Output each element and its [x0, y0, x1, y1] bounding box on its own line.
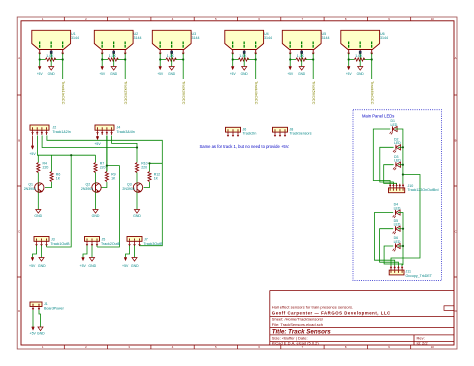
svg-text:+5V: +5V — [122, 264, 129, 268]
wires J1 — [33, 310, 41, 327]
svg-text:LED: LED — [394, 141, 401, 145]
transistor Q3 2N3904 — [133, 183, 142, 193]
hall sensor U4 — [225, 30, 264, 79]
wire D5 right — [398, 228, 403, 230]
svg-text:KiCad E.D.A. elcad (5.0.2): KiCad E.D.A. elcad (5.0.2) — [272, 341, 320, 346]
junction stage3 feed — [136, 146, 138, 148]
wire J2 pin4 to vertical x162.3 — [47, 136, 162, 246]
+5V J7 — [124, 258, 127, 262]
wire J4 pin3 to stage2 base resistor — [106, 136, 108, 172]
+5V J1 — [32, 327, 35, 331]
svg-text:10: 10 — [431, 17, 435, 21]
junction on rail — [70, 154, 72, 156]
svg-text:Track4InDCC: Track4InDCC — [254, 81, 259, 105]
dashed notes box — [353, 110, 442, 281]
svg-text:D: D — [18, 309, 20, 313]
svg-text:+5V: +5V — [94, 142, 101, 146]
svg-text:J7: J7 — [144, 237, 148, 241]
hall sensor U3 — [152, 30, 191, 79]
connector J4 — [95, 125, 114, 135]
wire stage1 base resistor feed — [51, 155, 53, 171]
wires J3 power — [33, 246, 47, 258]
wire D3 left — [384, 165, 397, 185]
svg-text:10: 10 — [431, 345, 435, 349]
svg-text:B: B — [18, 139, 20, 143]
svg-text:B: B — [455, 139, 457, 143]
wires stage3 — [137, 173, 150, 210]
svg-text:TrackSensors: TrackSensors — [290, 132, 312, 136]
svg-text:LED: LED — [394, 240, 401, 244]
svg-text:+5V: +5V — [29, 152, 36, 156]
resistor R12 1K — [148, 172, 151, 182]
junction stage2 tap — [106, 165, 108, 167]
svg-text:J3: J3 — [51, 237, 55, 241]
+5V J5 — [82, 258, 85, 262]
svg-text:GND: GND — [88, 264, 96, 268]
svg-text:J5: J5 — [102, 237, 106, 241]
svg-text:GND: GND — [37, 332, 45, 336]
wires stage2 — [96, 173, 107, 210]
svg-text:Same as for track 1, but no ne: Same as for track 1, but no need to prov… — [200, 144, 290, 149]
wire D2 right — [398, 146, 403, 148]
svg-text:Geoff Carpenter — FARGOS Devel: Geoff Carpenter — FARGOS Development, LL… — [272, 310, 391, 315]
svg-text:Hall effect sensors for train: Hall effect sensors for train presence s… — [272, 305, 353, 310]
hall sensor U5 — [282, 30, 321, 79]
wire D1 right — [395, 129, 403, 185]
svg-text:A: A — [18, 56, 20, 60]
svg-text:3144: 3144 — [192, 36, 200, 40]
svg-text:3144: 3144 — [264, 36, 272, 40]
svg-text:+5V: +5V — [30, 332, 37, 336]
wire branch to lower group — [391, 175, 420, 267]
svg-text:220: 220 — [43, 166, 49, 170]
wire D2 left — [380, 147, 394, 184]
hall sensor U6 — [341, 30, 380, 79]
svg-text:Track2OutB: Track2OutB — [101, 242, 121, 246]
resistor R7 220 — [94, 163, 97, 173]
svg-text:+5V: +5V — [80, 264, 87, 268]
wire stage1 collector — [37, 155, 39, 162]
svg-text:Track1InDCC: Track1InDCC — [61, 81, 66, 105]
svg-text:2N3904: 2N3904 — [81, 187, 93, 191]
svg-text:1K: 1K — [111, 176, 116, 180]
svg-text:Track3&4In: Track3&4In — [117, 130, 135, 134]
+5V J3 — [31, 258, 34, 262]
+5V power J4 pin1 — [97, 136, 99, 137]
wire stage3 tap to vertical — [150, 163, 163, 171]
LED D6 — [393, 243, 401, 251]
connector J10 — [389, 184, 405, 193]
svg-text:GND: GND — [38, 264, 46, 268]
svg-text:Occupy_TrkDET: Occupy_TrkDET — [406, 274, 433, 278]
connector J11 — [389, 266, 404, 275]
svg-text:1K: 1K — [154, 176, 159, 180]
right border sheet tab — [444, 306, 454, 311]
svg-text:GND: GND — [133, 214, 141, 218]
wire stage2 tap to J5 — [97, 166, 119, 247]
wires J7 power — [126, 246, 140, 258]
wires J5 power — [83, 246, 97, 258]
wire D1 left — [373, 129, 390, 185]
svg-text:J1: J1 — [44, 302, 48, 306]
svg-text:LED: LED — [391, 123, 398, 127]
ground Q2 — [93, 210, 98, 214]
resistor R4 220 — [37, 163, 40, 173]
connector J7 — [127, 237, 142, 246]
connector J6 — [226, 127, 241, 136]
svg-text:C: C — [455, 230, 457, 234]
hall sensor U1 — [32, 30, 71, 79]
ground J1 — [38, 327, 43, 331]
wire D4 left — [375, 213, 395, 267]
svg-text:2N3904: 2N3904 — [24, 187, 36, 191]
connector J1 — [30, 302, 42, 310]
svg-text:Track2InDCC: Track2InDCC — [124, 81, 129, 105]
resistor R10 220 — [135, 163, 138, 173]
svg-text:Id: 2/2: Id: 2/2 — [417, 341, 429, 346]
transistor Q2 2N3904 — [92, 183, 101, 193]
svg-text:1K: 1K — [56, 176, 61, 180]
ground Q3 — [134, 210, 139, 214]
svg-text:C: C — [18, 230, 20, 234]
svg-text:3144: 3144 — [380, 36, 388, 40]
svg-text:3144: 3144 — [71, 36, 79, 40]
wire stage1 output drop — [47, 155, 72, 247]
ground J3 — [39, 258, 44, 262]
svg-text:LED: LED — [394, 159, 401, 163]
wire J2 pin3 to stage3 — [42, 136, 137, 148]
svg-text:220: 220 — [141, 166, 147, 170]
wires stage1 — [38, 173, 51, 210]
wire stage2 collector — [95, 155, 97, 162]
ground J5 — [89, 258, 94, 262]
wire D5 left — [380, 229, 399, 267]
connector J2 — [30, 125, 49, 135]
svg-text:J2: J2 — [53, 125, 57, 129]
svg-text:File: TrackSensors.elcad.sch: File: TrackSensors.elcad.sch — [272, 322, 323, 327]
+5V power J2 pin1 — [32, 136, 34, 147]
svg-text:Track1&2In: Track1&2In — [53, 130, 71, 134]
wire D4 right — [398, 213, 403, 267]
svg-text:A: A — [455, 56, 457, 60]
svg-text:3144: 3144 — [134, 36, 142, 40]
svg-text:GND: GND — [34, 214, 42, 218]
ground Q1 — [36, 210, 41, 214]
svg-text:GND: GND — [131, 264, 139, 268]
svg-text:D: D — [455, 309, 457, 313]
svg-text:BoardPower: BoardPower — [44, 306, 65, 310]
svg-text:LED: LED — [394, 223, 401, 227]
connector J5 — [85, 237, 100, 246]
junction stage3 tap — [148, 162, 150, 164]
svg-text:Title: Track Sensors: Title: Track Sensors — [272, 328, 331, 335]
svg-text:Track3OutB: Track3OutB — [144, 242, 164, 246]
wire D6 left — [384, 246, 402, 266]
svg-text:Sheet: /Home/TrackSensors/: Sheet: /Home/TrackSensors/ — [272, 317, 324, 322]
resistor R6 1K — [50, 172, 53, 182]
ground J7 — [132, 258, 137, 262]
svg-text:Q3: Q3 — [127, 183, 132, 187]
svg-text:LED: LED — [394, 206, 401, 210]
connector J8 — [273, 127, 288, 136]
hall sensor U2 — [94, 30, 133, 79]
transistor Q1 2N3904 — [35, 183, 44, 193]
connector J3 — [34, 237, 49, 246]
svg-text:GND: GND — [92, 214, 100, 218]
wires from J2/J4 to stages and outputs — [37, 136, 162, 248]
wire D6 right — [398, 245, 403, 247]
svg-text:Track3InDCC: Track3InDCC — [182, 81, 187, 105]
svg-text:Track5InDCC: Track5InDCC — [312, 81, 317, 105]
wire J2 pin2 rail y156.7 — [37, 136, 95, 156]
svg-text:2N3904: 2N3904 — [122, 187, 134, 191]
LED D1 — [390, 126, 398, 134]
svg-text:J4: J4 — [117, 125, 121, 129]
svg-text:Track123OnOutBrd: Track123OnOutBrd — [408, 188, 439, 192]
svg-text:Track1OutB: Track1OutB — [51, 242, 71, 246]
svg-text:Main Panel LEDs: Main Panel LEDs — [362, 114, 394, 119]
wire D3 right — [398, 164, 403, 166]
svg-text:Track2In: Track2In — [243, 132, 257, 136]
LED D4 — [393, 210, 401, 218]
svg-text:Q2: Q2 — [86, 183, 91, 187]
svg-text:3144: 3144 — [322, 36, 330, 40]
svg-text:Track6InDCC: Track6InDCC — [370, 81, 375, 105]
LED D2 — [393, 145, 401, 153]
wire J4 pin4 to stage3 collector — [112, 136, 137, 163]
resistor R9 1K — [105, 172, 108, 182]
LED D3 — [393, 162, 401, 170]
svg-text:220: 220 — [100, 166, 106, 170]
svg-text:Q1: Q1 — [28, 183, 33, 187]
LED D5 — [393, 226, 401, 234]
svg-text:+5V: +5V — [29, 264, 36, 268]
